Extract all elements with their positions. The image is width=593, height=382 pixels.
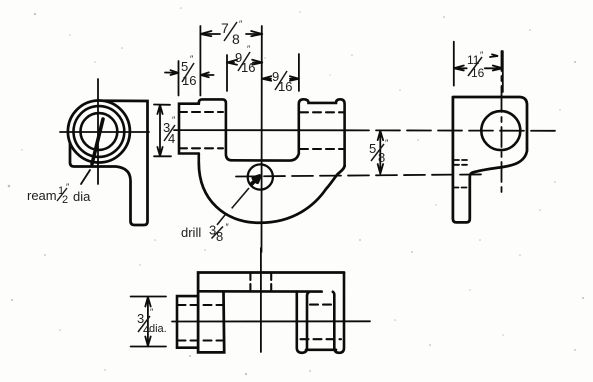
bottom view — [131, 248, 370, 353]
right view — [453, 42, 527, 223]
dimensions top — [154, 26, 383, 174]
hidden drill verticals in band — [250, 273, 271, 291]
svg-text:16: 16 — [241, 60, 255, 75]
right view hidden dash lower — [454, 187, 471, 189]
prong2 — [333, 273, 344, 353]
dim 3/4 dia — [131, 297, 166, 347]
svg-text:″: ″ — [66, 182, 70, 192]
ext line x178.5 — [178, 61, 180, 96]
left arm narrow rect — [179, 104, 199, 154]
svg-text:dia: dia — [73, 189, 91, 204]
bottom view vertical centerline — [260, 248, 262, 352]
svg-text:16: 16 — [471, 66, 485, 80]
svg-text:drill: drill — [181, 225, 201, 240]
svg-text:4: 4 — [168, 131, 175, 146]
main horizontal centerline solid part — [174, 129, 345, 131]
svg-text:16: 16 — [182, 73, 196, 88]
dim 9/16 first line — [227, 62, 262, 64]
left view — [60, 79, 149, 225]
dim 7/8 arrows — [200, 31, 262, 36]
right view vertical centerline — [501, 51, 503, 194]
svg-text:11: 11 — [467, 53, 480, 67]
left view outline — [70, 101, 148, 225]
ream leader thick stroke — [92, 119, 103, 164]
line between prongs — [306, 348, 336, 351]
svg-text:″: ″ — [226, 222, 230, 232]
hidden line left arm lower — [179, 147, 223, 149]
reamed hole circle — [81, 113, 118, 150]
slot bottom line bottomview — [200, 290, 322, 293]
ream leader line — [81, 170, 90, 184]
right view hole — [481, 111, 520, 150]
right view outline — [453, 97, 527, 222]
hidden hole lines bottom left — [178, 305, 224, 341]
dim 11/16 — [454, 42, 503, 92]
svg-text:″: ″ — [480, 50, 484, 60]
left arm tall part — [199, 99, 232, 163]
boss rect bottomview — [177, 296, 198, 348]
front vertical centerline — [261, 26, 263, 252]
right arm — [299, 99, 345, 166]
drill hole — [248, 164, 273, 189]
svg-text:7: 7 — [221, 20, 229, 36]
ext line x200.4 — [199, 26, 201, 96]
svg-text:″: ″ — [150, 307, 154, 317]
hidden line left arm upper — [179, 111, 223, 113]
svg-text:16: 16 — [278, 79, 292, 94]
main horizontal centerline dashed part — [345, 129, 556, 132]
big arc — [199, 163, 345, 223]
left view horizontal centerline — [60, 131, 149, 133]
svg-text:ream: ream — [27, 188, 57, 203]
ext line x298.9 — [298, 54, 300, 91]
svg-text:″: ″ — [239, 19, 243, 29]
dim 3/4 left view — [154, 105, 171, 157]
svg-text:2: 2 — [62, 194, 68, 206]
front view — [174, 26, 556, 252]
svg-text:8: 8 — [216, 229, 223, 244]
ext line x227 — [226, 55, 228, 91]
hidden lines between prongs — [301, 305, 342, 340]
svg-text:5: 5 — [369, 141, 376, 156]
svg-text:″: ″ — [172, 115, 176, 125]
hidden line right arm upper — [300, 111, 344, 113]
boss outer circle — [68, 101, 130, 163]
svg-text:5: 5 — [181, 59, 188, 74]
slot bottom — [232, 154, 299, 161]
svg-text:8: 8 — [378, 150, 385, 165]
hidden line right arm lower — [300, 148, 344, 150]
dim 9/16 first arrows — [227, 60, 262, 65]
band top and left outline — [198, 273, 344, 353]
dim 9/16 second arrows — [262, 76, 299, 81]
lower phantom line through drill — [236, 174, 483, 176]
svg-text:″: ″ — [385, 138, 389, 148]
dim 5/16 outside arrows — [165, 70, 214, 77]
drill leader — [217, 188, 249, 225]
dim 7/8 line — [200, 33, 262, 35]
svg-text:8: 8 — [232, 31, 240, 47]
right view hidden dashes upper — [454, 160, 470, 165]
svg-text:dia.: dia. — [149, 323, 167, 335]
dim 5/8 — [378, 131, 383, 174]
bottom view horizontal centerline — [172, 320, 370, 322]
boss middle circle — [74, 106, 125, 157]
prong1 — [297, 292, 309, 353]
drill hole smudge arrow — [252, 176, 260, 183]
svg-text:″: ″ — [190, 54, 194, 64]
left view vertical centerline — [97, 79, 99, 184]
